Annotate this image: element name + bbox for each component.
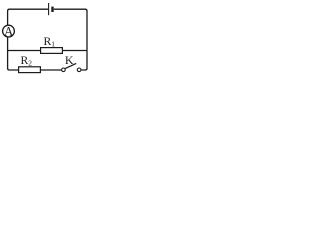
switch K left contact circle: [62, 68, 66, 72]
battery short thick plate: [51, 7, 53, 12]
resistor R1 body: [41, 48, 63, 54]
wire left rail: ammeter bottom down to bottom-left corner, to R2: [8, 37, 19, 70]
wire top-right: from battery to corner, right rail down to switch row: [54, 9, 87, 70]
switch K right contact circle: [77, 68, 81, 72]
switch K blade: [65, 63, 76, 68]
wire top-left: left rail up from ammeter, corner, top wire to battery: [8, 9, 48, 25]
svg-text:K: K: [65, 53, 74, 67]
wire R2 to switch K: [40, 69, 61, 71]
svg-text:R1: R1: [44, 35, 56, 48]
wire R1 branch right segment: [62, 50, 87, 52]
svg-text:R2: R2: [21, 54, 33, 67]
ammeter U1 circle: [3, 25, 15, 37]
svg-text:A: A: [4, 24, 13, 38]
battery long plate: [48, 3, 50, 15]
resistor R2 body: [19, 67, 41, 73]
wire R1 branch left segment: [8, 50, 41, 52]
